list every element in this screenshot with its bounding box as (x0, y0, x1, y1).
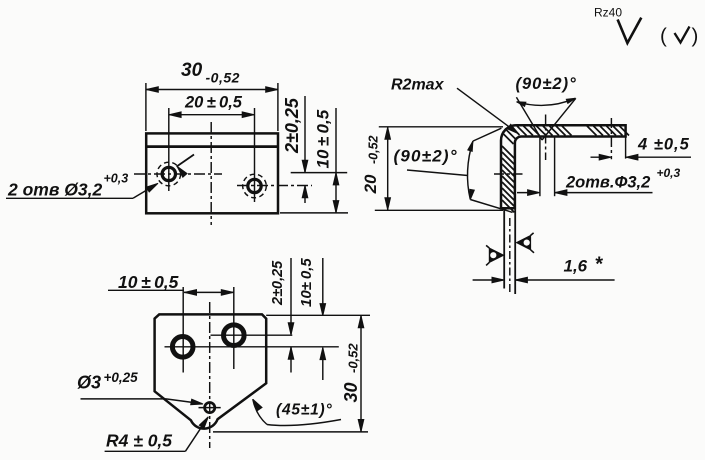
svg-text:2±0,25: 2±0,25 (282, 97, 302, 154)
svg-text:10 ± 0,5: 10 ± 0,5 (314, 109, 333, 168)
svg-text:20 ± 0,5: 20 ± 0,5 (184, 94, 243, 112)
svg-text:20: 20 (361, 174, 380, 194)
svg-text:2±0,25: 2±0,25 (270, 260, 286, 306)
svg-text:R2max: R2max (391, 77, 445, 94)
svg-text:R4 ± 0,5: R4 ± 0,5 (106, 431, 172, 451)
svg-text:+0,3: +0,3 (657, 166, 681, 180)
svg-text:(45±1)°: (45±1)° (276, 402, 333, 419)
svg-text:Ø3: Ø3 (77, 373, 101, 393)
svg-text:(90±2)°: (90±2)° (394, 147, 458, 166)
svg-text:4 ±0,5: 4 ±0,5 (637, 136, 690, 154)
svg-text:30: 30 (181, 60, 203, 81)
svg-text:): ) (692, 25, 699, 48)
svg-text:+0,3: +0,3 (104, 172, 129, 186)
svg-text:-0,52: -0,52 (346, 343, 361, 373)
svg-text:30: 30 (341, 382, 361, 402)
svg-text:10± 0,5: 10± 0,5 (298, 258, 315, 307)
svg-text:(90±2)°: (90±2)° (516, 75, 577, 93)
svg-text:(: ( (660, 25, 667, 48)
svg-text:+0,25: +0,25 (104, 370, 139, 385)
svg-text:10 ± 0,5: 10 ± 0,5 (118, 272, 179, 292)
svg-text:-0,52: -0,52 (367, 135, 381, 164)
svg-text:2 отв Ø3,2: 2 отв Ø3,2 (7, 180, 102, 200)
svg-text:1,6: 1,6 (564, 257, 588, 276)
svg-text:2отв.Ф3,2: 2отв.Ф3,2 (565, 174, 650, 192)
svg-text:-0,52: -0,52 (206, 70, 240, 86)
svg-text:*: * (595, 254, 604, 276)
svg-text:Rz40: Rz40 (594, 6, 622, 20)
